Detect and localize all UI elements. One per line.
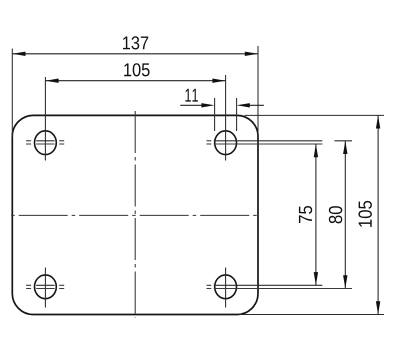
dimension 137 arrow left [12,52,25,56]
dimension 105 arrow left [45,79,58,83]
hole top-left centerline 75-position [26,143,64,145]
dimension 80 arrow top [343,141,347,154]
dimension 80 label [329,206,342,223]
hole bottom-right centerline 80-position extended to 80 dim [207,288,353,290]
dimension 80 arrow bottom [343,275,347,288]
dimension 105 vertical label [358,201,371,227]
dimension 105 line [45,80,225,82]
hole bottom-left centerline 75-position [26,284,64,286]
dimension 80 line (vertical) [344,141,346,289]
vertical centerline (plate mid, dash-dot) [134,111,136,318]
dimension 11 arrow right (pointing left) [237,103,250,107]
extension line left (plate left edge up to 137 dim) [11,49,13,138]
hole top-left (slot) [35,131,57,155]
hole bottom-right vertical centerline [225,268,227,308]
hole top-left centerline 80-position [26,140,64,142]
hole bottom-left centerline 80-position [26,288,64,290]
dimension 11 label [185,89,197,102]
hole bottom-right (slot) [215,275,237,299]
horizontal centerline (plate mid, dash-dot) [11,214,259,216]
dimension 105 vertical line [377,115,379,314]
extension line hole left edge (11 dim) [214,98,216,131]
hole top-left vertical centerline [44,77,46,161]
dimension 11 arrow left (pointing right) [201,103,214,107]
dimension 105 label [124,63,149,76]
hole bottom-left (slot) [35,275,57,299]
hole bottom-right centerline 75-position extended to 75 dim [207,284,323,286]
dimension 75 arrow top [314,144,318,157]
hole top-right centerline 80-position extended to 80 dim [207,140,353,142]
extension line right (plate right edge up to 137 dim) [257,46,259,137]
extension line plate bottom edge to 105 vertical dim [239,314,384,316]
dimension 75 label [299,206,312,223]
hole top-right centerline 75-position extended to 75 dim [207,143,323,145]
dimension 75 line (vertical) [315,144,317,285]
plate outline (top mounting plate, rounded rectangle) [12,115,258,314]
dimension 105 vertical arrow bottom [376,301,380,314]
dimension 137 label [123,36,148,49]
hole top-right (slot) [215,131,237,155]
hole top-right vertical centerline [225,75,227,161]
hole bottom-left vertical centerline [44,268,46,308]
extension line plate top edge to 105 vertical dim [245,114,385,116]
dimension 137 arrow right [245,52,258,56]
dimension 75 arrow bottom [314,272,318,285]
dimension 105 arrow right [212,79,225,83]
dimension 137 line [12,53,258,55]
dimension 11 left tail [180,104,203,106]
extension line hole right edge (11 dim) [236,98,238,131]
dimension 11 right tail [248,104,264,106]
dimension 105 vertical arrow top [376,115,380,128]
